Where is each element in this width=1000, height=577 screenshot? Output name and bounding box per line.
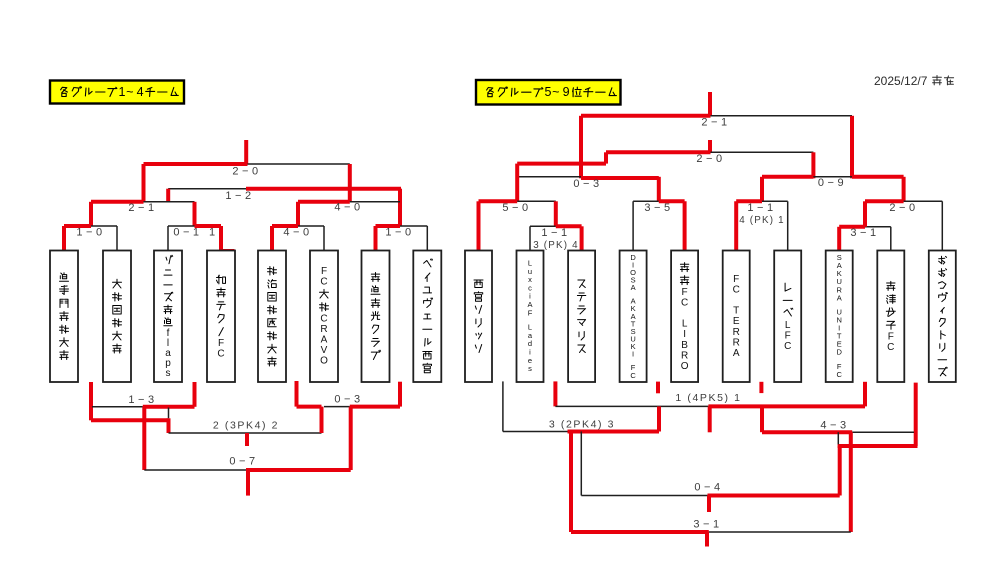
yellow label: groups 5-9 teams <box>476 80 621 105</box>
right red line a <box>838 444 918 448</box>
right SF2 loser riser to 3rd place line <box>811 152 815 178</box>
svg-text:3−1: 3−1 <box>850 227 879 239</box>
team box: Kyoto Shiko Club <box>362 251 390 383</box>
left red horizontal to 2(3PK4)2 connector <box>91 418 169 422</box>
left 3rd place line red part (1-2 winner side) <box>246 187 401 191</box>
left champion stub (red) <box>244 140 248 164</box>
left SF1 line black part <box>144 201 195 203</box>
right 0-4 line black part <box>581 495 707 497</box>
svg-text:2025/12/7: 2025/12/7 <box>874 74 928 88</box>
left dropper from QF4 pair gap <box>398 382 402 407</box>
right 3(2PK4)3 line black part <box>503 431 568 433</box>
right 3-1 line red part <box>571 530 709 534</box>
left QF3 loser vertical to 2(3PK4)2 <box>320 407 324 433</box>
yellow label: groups 1-4 teams <box>50 81 184 104</box>
right SF2 0-9 line red right part <box>852 175 904 179</box>
right vertical 1(4PK5)1 to 4-3 <box>760 406 764 432</box>
QF4 left team riser (red) <box>374 226 378 251</box>
team box: Nishinomiya Sorriso <box>465 251 492 383</box>
svg-text:F: F <box>888 332 894 343</box>
left dropper from QF3 pair gap <box>295 381 299 407</box>
right 1(4PK5)1 line red part <box>708 404 865 408</box>
team box: Beyoulvert Nishinomiya <box>413 251 441 383</box>
QF1 left team riser (red) <box>62 226 66 251</box>
svg-text:F: F <box>321 266 327 277</box>
QF3 left team riser (red) <box>270 226 274 251</box>
svg-text:A: A <box>837 293 842 302</box>
QF3 right team riser <box>323 226 325 251</box>
right black connector 4-3 to line a <box>837 432 839 444</box>
right red stub box4/5 gap <box>656 382 660 394</box>
left 2(3PK4)2 winner stub <box>245 433 249 446</box>
right 3-1 winner stub <box>705 532 709 547</box>
QF-C left team riser (red) <box>734 201 738 250</box>
svg-text:D: D <box>836 348 842 357</box>
right 0-4 line red part <box>708 494 840 498</box>
svg-text:0−1 1: 0−1 1 <box>173 226 218 238</box>
svg-text:F: F <box>528 308 533 317</box>
svg-text:4−0: 4−0 <box>334 201 363 213</box>
left consolation 1-3 line red part <box>143 405 195 409</box>
svg-text:C: C <box>630 371 636 380</box>
right 3rd place 2-0 line black part <box>711 151 814 153</box>
QF-B 3-5 line red part <box>659 199 685 203</box>
left final line black part <box>248 163 350 165</box>
QF-B winner riser <box>657 177 661 202</box>
FR1 line black part <box>530 225 556 227</box>
left SF2 winner riser <box>348 164 352 202</box>
svg-text:2−0: 2−0 <box>889 202 918 214</box>
team box: Ritto FC LIBRO <box>671 251 698 383</box>
left QF3 loser horizontal <box>297 405 322 409</box>
svg-text:I: I <box>683 329 686 340</box>
svg-text:5: 5 <box>545 85 552 99</box>
right SF2 winner riser (to 0-9 line) <box>850 116 854 179</box>
left QF3 winner riser <box>296 202 300 226</box>
svg-text:1−3: 1−3 <box>128 394 157 406</box>
svg-text:0−7: 0−7 <box>229 455 258 467</box>
left 0-7 winner stub <box>246 470 250 496</box>
right riser 3(2PK4)3 to 1(4PK5)1 <box>657 406 661 431</box>
team box: DIOSA AKATSUKI FC <box>620 251 647 383</box>
team box: Stella Maris <box>568 251 595 383</box>
right final 2-1 line black part <box>711 115 853 117</box>
svg-text:C: C <box>887 342 894 353</box>
svg-text:E: E <box>733 316 740 327</box>
svg-text:2 (3PK4) 2: 2 (3PK4) 2 <box>213 419 279 431</box>
svg-text:4: 4 <box>137 85 144 99</box>
svg-text:C: C <box>836 370 842 379</box>
svg-text:0−9: 0−9 <box>818 177 847 189</box>
FR1 winner riser <box>554 201 558 226</box>
QF3 line black part <box>298 225 324 227</box>
right red vertical line a to 0-4 <box>838 446 842 496</box>
QF-C 1-1 line red part <box>736 199 762 203</box>
svg-text:1−2: 1−2 <box>225 190 254 202</box>
svg-text:C: C <box>784 341 791 352</box>
QF4 line black part <box>400 225 427 227</box>
QF-D right team riser <box>941 201 943 250</box>
QF-B 3-5 line black part <box>633 200 659 202</box>
right 4-3 line red part <box>762 430 852 434</box>
right 3rd place winner stub <box>708 140 712 152</box>
right vertical 3(2PK4)3 to 3-1 <box>569 432 573 533</box>
QF2 line black part <box>168 225 195 227</box>
QF4 right team riser <box>426 226 428 251</box>
left 0-7 line black part <box>144 469 246 471</box>
left consolation 1-3 line black part <box>92 406 143 408</box>
team box: Bunnies Kyoto flaps <box>154 251 182 383</box>
QF-A 5-0 line black part <box>517 200 556 202</box>
QF1 line red part <box>64 224 91 228</box>
svg-text:C: C <box>681 297 688 308</box>
right SF2 0-9 line red left part <box>762 175 813 179</box>
left red vertical 1-3 to 0-7 <box>142 407 146 470</box>
QF-D winner riser <box>902 177 906 202</box>
left 0-3 line red part <box>350 405 400 409</box>
svg-text:L: L <box>785 320 791 331</box>
svg-text:5−0: 5−0 <box>502 202 531 214</box>
svg-text:4−0: 4−0 <box>283 226 312 238</box>
right jog riser <box>604 152 608 163</box>
svg-text:O: O <box>320 356 328 367</box>
FR2 3-1 line black part <box>865 226 891 228</box>
FR2 left team riser (red) <box>837 227 841 251</box>
svg-text:L: L <box>682 319 688 330</box>
FR2 winner riser <box>863 201 867 227</box>
QF2 left team riser <box>167 226 169 251</box>
svg-text:R: R <box>733 337 740 348</box>
QF-A winner riser (tall through SF line) <box>515 164 519 202</box>
svg-text:C: C <box>733 284 740 295</box>
left final line red part (2-0 winner side) <box>144 162 248 166</box>
svg-text:B: B <box>681 340 688 351</box>
svg-text:~: ~ <box>126 85 133 99</box>
svg-text:V: V <box>321 345 328 356</box>
svg-text:0−3: 0−3 <box>573 178 602 190</box>
svg-text:~: ~ <box>552 85 559 99</box>
left SF2 line black part <box>350 201 400 203</box>
svg-text:1−1: 1−1 <box>747 202 776 214</box>
left 2(3PK4)2 line <box>169 432 322 434</box>
right 3rd place 2-0 line red part <box>606 150 711 154</box>
svg-text:0−3: 0−3 <box>334 393 363 405</box>
right 0-4 winner stub <box>707 496 711 513</box>
svg-text:F: F <box>682 287 688 298</box>
svg-text:F: F <box>218 338 224 349</box>
right 1(4PK5)1 winner stub <box>708 406 712 432</box>
right red stub box6/7 gap <box>759 382 763 393</box>
QF-C right team riser <box>787 201 789 250</box>
svg-text:2−0: 2−0 <box>696 153 725 165</box>
svg-text:1−0: 1−0 <box>76 226 105 238</box>
left black vertical 1-3 loser drop <box>168 408 170 419</box>
svg-text:F: F <box>785 330 791 341</box>
svg-text:2−1: 2−1 <box>128 202 157 214</box>
right SF2 0-9 line black part <box>813 176 852 178</box>
team box: SAKURA UNITED FC <box>826 251 853 383</box>
svg-text:C: C <box>320 313 327 324</box>
svg-text:s: s <box>166 368 171 379</box>
QF3 line red part <box>272 224 298 228</box>
QF-C 1-1 line black part <box>762 200 788 202</box>
right SF1 winner riser (to 0-3 line) <box>579 116 583 179</box>
right red dropper box9/10 gap <box>914 383 918 446</box>
svg-text:1−1: 1−1 <box>541 227 570 239</box>
team box: Toyotsu Joshi FC <box>877 251 904 383</box>
svg-text:2−1: 2−1 <box>701 116 730 128</box>
team box: FC TERRA <box>723 251 750 383</box>
QF-A left team riser (red) <box>477 201 481 250</box>
right champion stub (red) <box>708 92 712 116</box>
left SF1 line red part <box>91 200 144 204</box>
left red vertical to 2(3PK4)2 line <box>167 418 171 433</box>
FR1 line red part <box>556 224 582 228</box>
team box: Lebe LFC <box>774 251 801 383</box>
svg-text:s: s <box>528 364 532 373</box>
svg-text:R: R <box>733 327 740 338</box>
svg-text:A: A <box>321 335 328 346</box>
right red vertical 4-3 to 3-1 <box>849 432 853 532</box>
svg-text:R: R <box>320 324 327 335</box>
QF-A 5-0 line red part <box>479 199 518 203</box>
right 1(4PK5)1 line black part <box>555 405 708 407</box>
team box: Izumi Techno FC <box>207 251 235 383</box>
left 0-7 line red part <box>246 468 351 472</box>
right SF1 0-3 line black part <box>517 176 581 178</box>
svg-text:1−0: 1−0 <box>385 226 414 238</box>
svg-text:3−5: 3−5 <box>644 202 673 214</box>
left dropper from QF2 pair gap <box>193 382 197 407</box>
left SF2 line red part <box>298 200 350 204</box>
left dropper from QF1 pair gap <box>89 382 93 420</box>
right jog horizontal (QF-A winner to 3rd place) <box>517 162 606 166</box>
team box: LuxciAF Ladies <box>517 251 544 383</box>
svg-text:3 (2PK4) 3: 3 (2PK4) 3 <box>549 418 615 430</box>
QF-D 2-0 line black part <box>904 200 943 202</box>
svg-text:O: O <box>681 361 689 372</box>
right 3(2PK4)3 line red part <box>568 430 660 434</box>
left QF4 winner riser tall <box>398 189 402 226</box>
svg-text:A: A <box>631 283 636 292</box>
FR2 right team riser <box>890 227 892 251</box>
left SF1 winner riser <box>142 164 146 202</box>
FR2 3-1 line red part <box>839 225 865 229</box>
svg-text:3−1: 3−1 <box>693 518 722 530</box>
team box: Meiji Univ of Integrative Medicine <box>258 251 286 383</box>
svg-text:C: C <box>320 277 327 288</box>
svg-text:4 (PK) 1: 4 (PK) 1 <box>739 215 785 226</box>
right red dropper box2/3 gap <box>553 381 557 406</box>
svg-text:2−0: 2−0 <box>232 165 261 177</box>
right black vertical 3(2PK4)3 to 0-4 <box>580 432 582 496</box>
svg-text:F: F <box>733 274 739 285</box>
right 3-1 line black part <box>709 531 851 533</box>
team box: Otemon Gakuin Univ <box>50 251 78 383</box>
svg-text:4−3: 4−3 <box>820 419 849 431</box>
right SF1 0-3 line red part <box>581 176 659 180</box>
FR1 left team riser <box>529 226 531 250</box>
svg-text:R: R <box>681 350 688 361</box>
left 0-3 winner drop to 0-7 <box>349 407 353 470</box>
QF-B right team riser (red) <box>683 201 687 250</box>
svg-text:A: A <box>733 348 740 359</box>
right final 2-1 line red part <box>581 114 711 118</box>
left 0-3 line black part <box>324 406 350 408</box>
QF4 line red part <box>376 224 401 228</box>
right black dropper box1/2 gap <box>502 381 504 431</box>
right red dropper box8/9 gap <box>863 382 867 407</box>
QF2 right team riser (red) <box>219 226 223 251</box>
QF-B left team riser <box>632 201 634 250</box>
left 3rd place left riser <box>166 189 170 202</box>
svg-text:1: 1 <box>119 85 126 99</box>
svg-text:9: 9 <box>563 85 570 99</box>
svg-text:3 (PK) 4: 3 (PK) 4 <box>533 240 579 251</box>
left 3rd place line black part <box>168 188 246 190</box>
QF1 right team riser <box>116 226 118 251</box>
svg-text:I: I <box>632 350 634 359</box>
left QF1 winner riser <box>89 202 93 226</box>
FR1 right team riser (red) <box>580 226 584 250</box>
svg-text:T: T <box>733 306 739 317</box>
QF-C winner riser <box>760 177 764 202</box>
svg-text:0−4: 0−4 <box>694 481 723 493</box>
team box: FC Osaka CRAVO <box>310 251 338 383</box>
right 4-3 line black part <box>852 431 914 433</box>
team box: Osaka Intl Univ <box>103 251 131 383</box>
svg-text:1 (4PK5) 1: 1 (4PK5) 1 <box>675 392 741 404</box>
left QF2 winner riser <box>193 202 197 226</box>
team box: Otsu Victories <box>929 251 956 383</box>
QF1 line black part <box>91 225 117 227</box>
QF-D 2-0 line red part <box>865 199 904 203</box>
QF2 red jog on box top <box>221 249 235 253</box>
svg-text:C: C <box>217 349 224 360</box>
QF2 line red part <box>195 224 222 228</box>
